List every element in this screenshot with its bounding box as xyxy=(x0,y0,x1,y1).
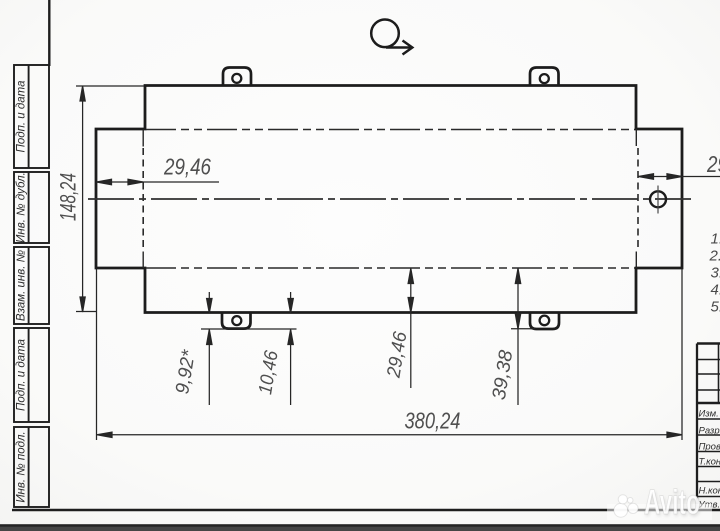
extension bar right tab bottom xyxy=(511,328,535,330)
svg-text:3.: 3. xyxy=(711,265,720,282)
svg-text:Avito: Avito xyxy=(644,483,700,522)
top-left mounting tab xyxy=(223,68,251,87)
svg-text:Т.контр.: Т.контр. xyxy=(699,457,720,468)
left frame box 3: Взам. инв. № xyxy=(14,247,49,324)
hidden dashed line left (x=143) xyxy=(142,148,144,250)
frame: bottom border line xyxy=(12,509,720,512)
part body outline with flange xyxy=(96,86,682,313)
frame: top-left vertical border line xyxy=(48,0,50,66)
svg-text:Пров.: Пров. xyxy=(699,442,720,453)
notes list numbers 1..5 (clipped at right edge) xyxy=(709,231,720,316)
dimension 39,38 xyxy=(515,269,520,406)
left frame box 5: Инв. № подл. xyxy=(14,427,49,507)
corner stub top-right xyxy=(635,129,637,146)
horizontal centerline (y=199) xyxy=(88,198,691,200)
hole vertical centerline xyxy=(657,186,659,214)
extension bar left tab bottom xyxy=(201,328,297,330)
left frame box 2: Инв. № дубл. xyxy=(14,172,49,243)
corner stub bottom-right xyxy=(635,252,637,269)
svg-text:Н.контр.: Н.контр. xyxy=(699,486,720,497)
dimension 29,46 top right (clipped) xyxy=(639,174,720,179)
svg-text:1.: 1. xyxy=(711,231,720,248)
phantom line top (y=130) xyxy=(146,129,635,131)
svg-text:5.: 5. xyxy=(711,299,720,316)
svg-text:148,24: 148,24 xyxy=(56,173,81,221)
Avito watermark xyxy=(607,483,712,524)
dark band at bottom of photo xyxy=(0,524,720,531)
dimension 10,46 xyxy=(288,292,293,405)
left frame box 1: Подп. и дата xyxy=(14,65,49,168)
dimension 9,92* xyxy=(207,292,212,405)
view direction symbol (circle with arrow) xyxy=(371,20,412,55)
svg-text:Взам. инв. №: Взам. инв. № xyxy=(16,249,28,321)
svg-text:Изм.: Изм. xyxy=(699,409,719,420)
svg-text:Подп. и дата: Подп. и дата xyxy=(16,339,28,411)
dimension 148,24 xyxy=(76,86,144,312)
svg-text:380,24: 380,24 xyxy=(405,408,461,434)
svg-text:Инв. № дубл.: Инв. № дубл. xyxy=(16,172,28,243)
svg-text:2.: 2. xyxy=(709,248,720,265)
top-left tab hole xyxy=(232,74,241,83)
dimension 380,24 xyxy=(97,269,683,440)
bottom-left tab hole xyxy=(232,316,241,325)
svg-text:29,46: 29,46 xyxy=(706,151,720,177)
corner stub top-left xyxy=(142,130,144,147)
hole on right flange xyxy=(650,191,666,207)
bottom-left mounting tab xyxy=(222,312,251,329)
hidden dashed line right (x=638) xyxy=(637,148,639,250)
dimension 29,46 left xyxy=(97,179,220,184)
svg-text:Инв. № подл.: Инв. № подл. xyxy=(16,431,28,502)
svg-text:29,46: 29,46 xyxy=(163,154,211,180)
top-right tab hole xyxy=(540,74,549,83)
svg-text:Подп. и дата: Подп. и дата xyxy=(16,81,28,153)
top-right mounting tab xyxy=(530,68,559,87)
phantom line bottom (y=268) xyxy=(146,267,635,269)
title block (bottom right, clipped) xyxy=(697,344,720,511)
bottom-right mounting tab xyxy=(530,312,559,329)
bottom-right tab hole xyxy=(540,316,550,326)
left frame box 4: Подп. и дата xyxy=(14,328,49,422)
svg-text:Разраб.: Разраб. xyxy=(699,426,720,437)
corner stub bottom-left xyxy=(142,252,144,269)
dimension 29,46 bottom xyxy=(408,269,413,389)
svg-text:4.: 4. xyxy=(711,282,720,299)
